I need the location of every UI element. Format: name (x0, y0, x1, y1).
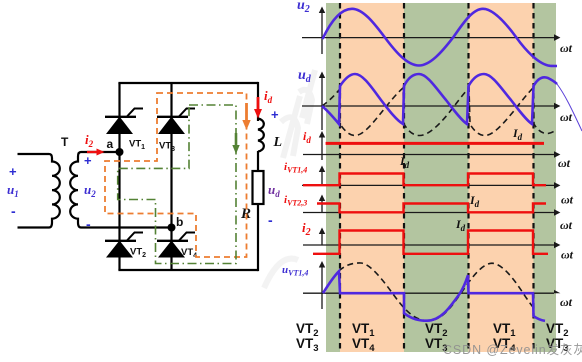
iVT1,4 pulse waveform (303, 174, 546, 186)
svg-text:ud: ud (268, 182, 280, 199)
wire right bridge leg (170, 83, 172, 270)
svg-text:T: T (61, 135, 69, 149)
svg-text:id: id (303, 129, 311, 145)
i2 square waveform (313, 231, 548, 254)
current arrow id (257, 97, 260, 110)
svg-text:VT4: VT4 (181, 247, 197, 260)
svg-text:+: + (271, 107, 279, 122)
wire left bridge leg (118, 83, 120, 270)
svg-text:u2: u2 (297, 0, 310, 15)
svg-text:-: - (86, 216, 91, 232)
svg-text:ωt: ωt (558, 156, 571, 170)
firing instant dashed line 2 (403, 3, 405, 352)
svg-text:uVT1,4: uVT1,4 (282, 264, 308, 278)
axis row3 (303, 131, 560, 160)
band orange 1 (340, 3, 404, 352)
svg-text:i2: i2 (302, 220, 311, 238)
svg-text:ωt: ωt (561, 193, 574, 207)
svg-text:u2: u2 (84, 182, 96, 199)
svg-text:iVT2,3: iVT2,3 (284, 194, 307, 208)
axis row6 (303, 228, 560, 249)
svg-text:iVT1,4: iVT1,4 (284, 161, 307, 175)
ud thin tail (557, 84, 582, 131)
svg-text:b: b (176, 215, 183, 229)
orange loop arrow (245, 103, 248, 121)
axis row7 (303, 261, 560, 309)
node b (168, 224, 176, 232)
svg-text:u1: u1 (7, 182, 19, 199)
svg-text:VT1: VT1 (129, 139, 145, 152)
background watermark glyphs (264, 70, 315, 288)
node a (116, 148, 124, 156)
wire bottom rail (118, 269, 258, 271)
uVT1,4 solid wave (323, 271, 545, 321)
id constant current line (326, 142, 544, 145)
wire R to bottom rail (257, 204, 259, 271)
svg-text:VT3: VT3 (159, 141, 175, 154)
orange conduction loop VT1-VT4 (105, 93, 247, 257)
svg-text:+: + (9, 164, 17, 179)
inductor L (258, 119, 264, 152)
band green 2 (404, 3, 469, 352)
u2 sine wave (323, 9, 558, 66)
wire L to R (257, 151, 259, 171)
band green 3 (534, 3, 557, 352)
ud solid wave (322, 74, 557, 124)
firing instant dashed line 3 (467, 3, 469, 352)
wire load branch top (257, 82, 259, 121)
firing instant dashed line 1 (339, 3, 341, 352)
svg-text:i2: i2 (85, 132, 94, 149)
iVT2,3 pulse waveform (317, 204, 546, 213)
thyristor VT4 (157, 233, 195, 258)
axis row4 (302, 166, 560, 189)
axis row2 (302, 72, 560, 131)
current arrow i2 (87, 151, 97, 153)
thyristor VT3 (157, 109, 195, 135)
svg-text:ud: ud (298, 68, 312, 85)
svg-text:ωt: ωt (560, 218, 573, 232)
thyristor VT1 (105, 109, 143, 135)
band green 1 (326, 3, 340, 352)
svg-text:ωt: ωt (561, 248, 574, 262)
green conduction loop VT2-VT3 (118, 105, 236, 264)
svg-text:ωt: ωt (560, 110, 573, 124)
svg-text:-: - (11, 203, 16, 219)
svg-text:ωt: ωt (560, 41, 573, 55)
svg-text:-: - (268, 212, 273, 228)
svg-text:VT2: VT2 (130, 247, 146, 260)
thyristor VT2 (105, 233, 143, 258)
transformer T secondary winding (70, 152, 171, 228)
wire top rail (118, 82, 258, 84)
svg-text:+: + (84, 153, 92, 168)
axis row5 (303, 195, 560, 216)
resistor R body (253, 171, 264, 204)
svg-text:R: R (240, 206, 251, 222)
band orange 2 (469, 3, 534, 352)
svg-text:CSDN @Zevelin发灰灰: CSDN @Zevelin发灰灰 (443, 342, 582, 357)
green loop arrow (235, 133, 238, 146)
uVT1,4 dashed sine (339, 263, 534, 321)
svg-text:a: a (107, 137, 114, 151)
svg-text:L: L (273, 135, 283, 150)
ud dashed mirror curve (322, 88, 556, 136)
svg-text:ωt: ωt (560, 295, 573, 309)
svg-text:id: id (264, 88, 273, 105)
firing instant dashed line 4 (532, 3, 534, 352)
transformer T primary winding (18, 154, 60, 228)
axis row1 (302, 7, 560, 55)
